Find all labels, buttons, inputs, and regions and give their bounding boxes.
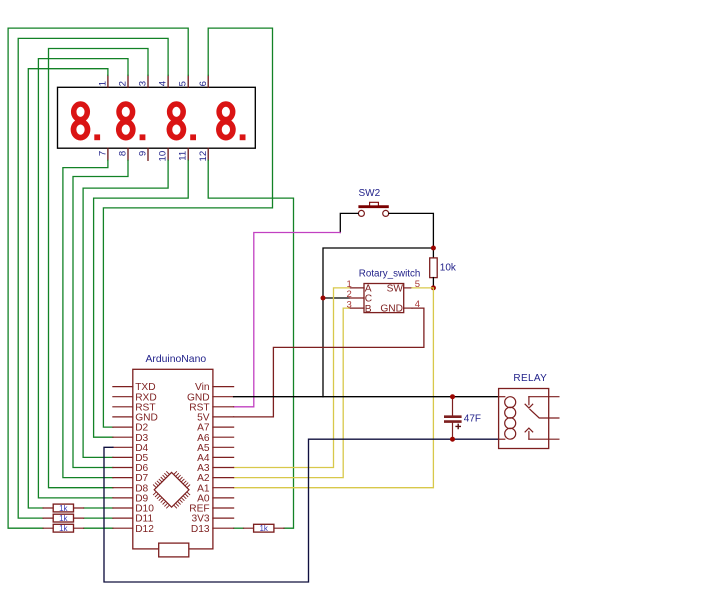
wire resistor R3 to D11 bbox=[84, 517, 113, 519]
wire rotary B to A2 bbox=[234, 308, 350, 478]
display pin 2 stub bbox=[127, 75, 129, 87]
wire magenta net SW2 to RST bbox=[234, 233, 341, 407]
junction cap bottom on navy net bbox=[450, 437, 455, 442]
rotary pin 5 SW stub bbox=[404, 287, 412, 289]
wire display pin10 to D5 bbox=[83, 160, 168, 457]
relay top contact wire bbox=[529, 396, 559, 398]
relay contact common bbox=[530, 409, 559, 418]
svg-text:RELAY: RELAY bbox=[513, 373, 547, 384]
junction cap top on GND rail bbox=[450, 394, 455, 399]
svg-text:1k: 1k bbox=[259, 524, 268, 533]
svg-text:8: 8 bbox=[118, 151, 129, 156]
pushbutton SW2 actuator bar bbox=[358, 205, 388, 208]
svg-text:D13: D13 bbox=[191, 524, 210, 535]
relay contact NC arrow bbox=[525, 397, 533, 408]
ArduinoNano right pin A3 stub bbox=[213, 467, 234, 469]
ArduinoNano left pin D10 stub bbox=[113, 507, 133, 509]
svg-text:3: 3 bbox=[138, 81, 149, 86]
svg-text:SW2: SW2 bbox=[359, 188, 381, 199]
display pin 6 stub bbox=[207, 75, 209, 87]
resistor 10k body bbox=[430, 258, 438, 278]
display pin 5 stub bbox=[187, 75, 189, 87]
svg-text:9: 9 bbox=[138, 151, 149, 156]
ArduinoNano MCU chip glyph bbox=[153, 471, 190, 508]
capacitor C1 top lead bbox=[452, 397, 454, 416]
ArduinoNano right pin A6 stub bbox=[213, 436, 234, 438]
ArduinoNano left pin D3 stub bbox=[113, 436, 133, 438]
relay K1 body bbox=[499, 389, 549, 449]
svg-text:GND: GND bbox=[380, 304, 403, 315]
display digit 8. #3 bbox=[169, 104, 196, 140]
capacitor C1 polarity plus bbox=[455, 424, 461, 430]
ArduinoNano left pin D11 stub bbox=[113, 517, 133, 519]
wire display pin1 to D10 resistor bbox=[28, 69, 108, 508]
wire 10k bottom to SW junction bbox=[432, 278, 434, 288]
ArduinoNano left pin TXD stub bbox=[113, 386, 133, 388]
ArduinoNano left pin GND stub bbox=[113, 416, 133, 418]
junction rotary C/GND rail bbox=[321, 296, 326, 301]
ArduinoNano right pin Vin stub bbox=[213, 386, 234, 388]
svg-text:B: B bbox=[365, 304, 372, 315]
svg-text:SW: SW bbox=[387, 283, 404, 294]
wire D13 pin to resistor R5 bbox=[234, 527, 244, 529]
wire D4 navy net bbox=[104, 439, 499, 582]
rotary pin 3 stub bbox=[349, 307, 364, 309]
capacitor C1 plates bbox=[444, 415, 462, 418]
rotary pin 1 stub bbox=[349, 287, 364, 289]
ArduinoNano right pin A7 stub bbox=[213, 426, 234, 428]
pushbutton SW2 button cap bbox=[370, 202, 379, 206]
wire display pin6 to D2 bbox=[103, 28, 272, 427]
display pin 9 stub bbox=[147, 148, 149, 160]
ArduinoNano left pin RXD stub bbox=[113, 396, 133, 398]
display pin 8 stub bbox=[127, 148, 129, 160]
svg-text:10k: 10k bbox=[440, 263, 457, 274]
ArduinoNano left pin D5 stub bbox=[113, 456, 133, 458]
junction 10k/SW/A1 bbox=[431, 285, 436, 290]
wire rotary GND to 5V bbox=[234, 308, 424, 417]
pushbutton SW2 left contact bbox=[358, 210, 364, 216]
ArduinoNano right pin A1 stub bbox=[213, 487, 234, 489]
wire display pin8 to D6 bbox=[73, 160, 128, 467]
svg-text:10: 10 bbox=[158, 151, 169, 162]
ArduinoNano USB connector bbox=[159, 543, 189, 557]
7-segment display DIS1 body bbox=[58, 87, 256, 148]
svg-text:1k: 1k bbox=[59, 504, 68, 513]
ArduinoNano left pin D6 stub bbox=[113, 467, 133, 469]
wire display pin5 to D12 resistor bbox=[8, 28, 188, 528]
svg-text:47F: 47F bbox=[464, 413, 481, 424]
svg-text:D12: D12 bbox=[135, 524, 154, 535]
ArduinoNano right pin REF stub bbox=[213, 507, 234, 509]
pushbutton SW2 right contact bbox=[383, 210, 389, 216]
ArduinoNano right pin A0 stub bbox=[213, 497, 234, 499]
rotary pin 4 GND stub bbox=[404, 307, 412, 309]
display pin 3 stub bbox=[147, 75, 149, 87]
display pin 12 stub bbox=[207, 148, 209, 160]
wire resistor R4 to D12 bbox=[84, 527, 113, 529]
junction SW2/10k bbox=[431, 246, 436, 251]
display digit 8. #2 bbox=[119, 104, 146, 140]
wire display pin7 to D7 bbox=[63, 160, 113, 477]
wire display pin4 to D11 resistor bbox=[18, 38, 168, 518]
wire 10k top to GND rail bbox=[323, 248, 433, 397]
resistor R3 1k body bbox=[53, 514, 73, 522]
display pin 10 stub bbox=[167, 148, 169, 160]
svg-text:1: 1 bbox=[97, 81, 108, 86]
ArduinoNano left pin RST stub bbox=[113, 406, 133, 408]
svg-text:Rotary_switch: Rotary_switch bbox=[359, 268, 421, 279]
ArduinoNano body bbox=[133, 369, 213, 549]
ArduinoNano right pin A4 stub bbox=[213, 456, 234, 458]
wire resistor R2 to D10 bbox=[84, 507, 113, 509]
wire display pin2 to D9 bbox=[38, 59, 128, 498]
svg-text:5: 5 bbox=[178, 81, 189, 86]
capacitor C1 bottom lead bbox=[452, 423, 454, 439]
ArduinoNano right pin GND stub bbox=[213, 396, 234, 398]
display digit 8. #1 bbox=[74, 104, 101, 140]
wire SW2 left to magenta net bbox=[340, 213, 358, 232]
svg-text:1k: 1k bbox=[59, 524, 68, 533]
resistor R5 leads bbox=[244, 527, 285, 529]
wire GND rail to relay coil bbox=[234, 396, 499, 398]
svg-text:12: 12 bbox=[198, 151, 209, 162]
resistor R5 1k body bbox=[254, 524, 274, 532]
svg-text:6: 6 bbox=[198, 81, 209, 86]
rotary switch body bbox=[364, 284, 404, 313]
resistor R3 leads bbox=[43, 517, 84, 519]
ArduinoNano left pin D2 stub bbox=[113, 426, 133, 428]
resistor R4 leads bbox=[43, 527, 84, 529]
svg-text:11: 11 bbox=[178, 151, 189, 161]
wire rotary SW / 10k to A1 bbox=[234, 288, 434, 488]
wire SW2 right to 10k resistor bbox=[389, 213, 434, 248]
display digit 8. #4 bbox=[219, 104, 246, 140]
resistor R2 1k body bbox=[53, 504, 73, 512]
ArduinoNano right pin RST stub bbox=[213, 406, 234, 408]
svg-text:4: 4 bbox=[158, 80, 169, 86]
ArduinoNano right pin A5 stub bbox=[213, 446, 234, 448]
relay coil bbox=[499, 397, 516, 440]
wire display pin3 to D8 bbox=[49, 49, 149, 488]
wire rotary pin2 C tap bbox=[323, 297, 349, 299]
resistor R2 leads bbox=[43, 507, 84, 509]
ArduinoNano right pin 5V stub bbox=[213, 416, 234, 418]
display pin 11 stub bbox=[187, 148, 189, 160]
svg-text:1k: 1k bbox=[59, 514, 68, 523]
svg-text:7: 7 bbox=[97, 151, 108, 156]
ArduinoNano right pin 3V3 stub bbox=[213, 517, 234, 519]
relay bottom contact wire bbox=[529, 438, 559, 440]
display pin 4 stub bbox=[167, 75, 169, 87]
display pin 7 stub bbox=[107, 148, 109, 160]
resistor R4 1k body bbox=[53, 524, 73, 532]
wire junction to 10k resistor top bbox=[432, 248, 434, 258]
ArduinoNano left pin D8 stub bbox=[113, 487, 133, 489]
ArduinoNano left pin D12 stub bbox=[113, 527, 133, 529]
relay contact NO arrow bbox=[525, 428, 533, 439]
ArduinoNano right pin A2 stub bbox=[213, 477, 234, 479]
display pin 1 stub bbox=[107, 75, 109, 87]
wire display pin11 to D3 bbox=[94, 160, 189, 437]
rotary pin 2 stub bbox=[349, 297, 364, 299]
wire display pin12 to D13 resistor bbox=[208, 160, 293, 528]
ArduinoNano left pin D4 stub bbox=[113, 446, 133, 448]
ArduinoNano left pin D7 stub bbox=[113, 477, 133, 479]
svg-text:2: 2 bbox=[118, 81, 129, 86]
ArduinoNano left pin D9 stub bbox=[113, 497, 133, 499]
wire rotary A to A3 bbox=[234, 288, 350, 468]
svg-text:ArduinoNano: ArduinoNano bbox=[145, 354, 206, 365]
ArduinoNano right pin D13 stub bbox=[213, 527, 234, 529]
